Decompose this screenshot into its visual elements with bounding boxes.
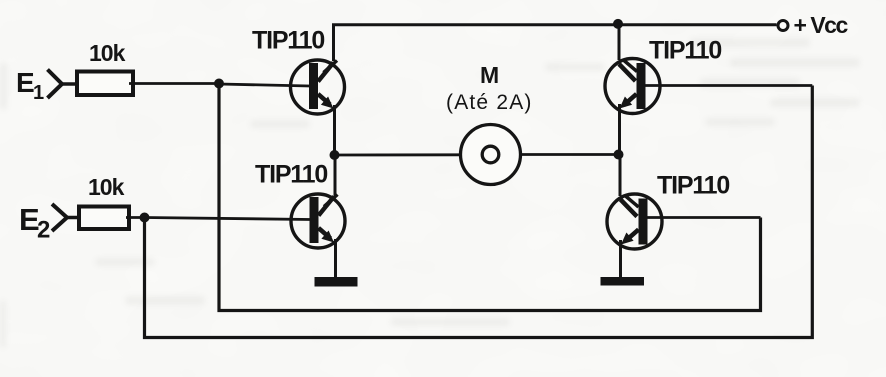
svg-text:10k: 10k bbox=[88, 174, 125, 200]
input terminal E2 chevron connector bbox=[52, 204, 80, 231]
svg-text:TIP110: TIP110 bbox=[255, 161, 327, 189]
svg-text:E: E bbox=[16, 67, 35, 98]
wire E2 junction to Q3 base bbox=[145, 218, 312, 220]
wire inner loop: right down, bottom, up to E1 junction bbox=[219, 84, 761, 311]
label (Até 2A) for motor bbox=[446, 91, 533, 114]
label TIP110 for Q4 bbox=[657, 172, 729, 200]
label TIP110 for Q2 bbox=[649, 37, 721, 65]
wire R1 to E1 junction bbox=[129, 82, 219, 85]
svg-text:TIP110: TIP110 bbox=[657, 172, 729, 200]
transistor Q3 TIP110 bottom-left NPN bbox=[291, 194, 345, 248]
svg-text:+ Vcc: + Vcc bbox=[794, 12, 849, 38]
node junction of top rail and Q2 collector bbox=[613, 19, 623, 29]
wire outer loop: right side down, bottom, up to E2 junction bbox=[145, 86, 813, 338]
svg-text:TIP110: TIP110 bbox=[252, 27, 324, 55]
wire Q2 base to outer loop bbox=[645, 84, 812, 87]
wire Q3 emitter to ground bbox=[334, 239, 337, 278]
wire Q2 collector drop from top rail bbox=[618, 25, 621, 60]
node motor-right junction bbox=[614, 150, 624, 160]
wire Q4 emitter to ground bbox=[619, 240, 622, 277]
wire Q3 collector up to motor-left node bbox=[334, 155, 337, 196]
svg-text:10k: 10k bbox=[89, 40, 126, 66]
input terminal E1 chevron connector bbox=[48, 70, 78, 99]
+Vcc terminal open circle bbox=[778, 21, 788, 31]
wire Q4 base to inner loop bbox=[647, 216, 761, 219]
ground bar under Q4 bbox=[601, 277, 645, 286]
wire top supply rail from Q1 collector to +Vcc terminal bbox=[334, 25, 777, 61]
svg-text:TIP110: TIP110 bbox=[649, 37, 721, 65]
motor M symbol bbox=[461, 125, 521, 185]
resistor R1 10k box bbox=[77, 72, 133, 96]
label + Vcc bbox=[794, 12, 849, 38]
svg-text:M: M bbox=[480, 62, 499, 88]
wire Q1 emitter down to motor-left node bbox=[333, 105, 336, 155]
label 10k for R2 bbox=[88, 174, 125, 200]
node E1 junction bbox=[214, 79, 224, 89]
wire E1 junction to Q1 base bbox=[219, 84, 310, 86]
svg-text:2: 2 bbox=[37, 217, 50, 244]
input terminal E2 label bbox=[19, 202, 50, 244]
wire R2 to E2 junction bbox=[126, 216, 145, 219]
ground bar under Q3 bbox=[315, 277, 358, 287]
node E2 junction bbox=[140, 213, 150, 223]
transistor Q4 TIP110 bottom-right NPN (mirrored) bbox=[607, 194, 662, 249]
transistor Q2 TIP110 top-right NPN (mirrored) bbox=[605, 59, 660, 114]
transistor Q1 TIP110 top-left NPN bbox=[291, 60, 345, 114]
label M for motor bbox=[480, 62, 499, 88]
wire Q2 emitter down to motor-right node bbox=[618, 104, 621, 155]
label 10k for R1 bbox=[89, 40, 126, 66]
svg-text:(Até 2A): (Até 2A) bbox=[446, 91, 533, 114]
wire Q4 collector up to motor-right node bbox=[619, 155, 622, 197]
svg-text:1: 1 bbox=[33, 82, 44, 104]
node motor-left junction bbox=[330, 150, 340, 160]
wire motor to motor-right node bbox=[521, 153, 619, 156]
wire motor-left node to motor bbox=[335, 153, 462, 156]
resistor R2 10k box bbox=[79, 207, 129, 230]
label TIP110 for Q3 bbox=[255, 161, 327, 189]
label TIP110 for Q1 bbox=[252, 27, 324, 55]
input terminal E1 label bbox=[16, 67, 44, 104]
